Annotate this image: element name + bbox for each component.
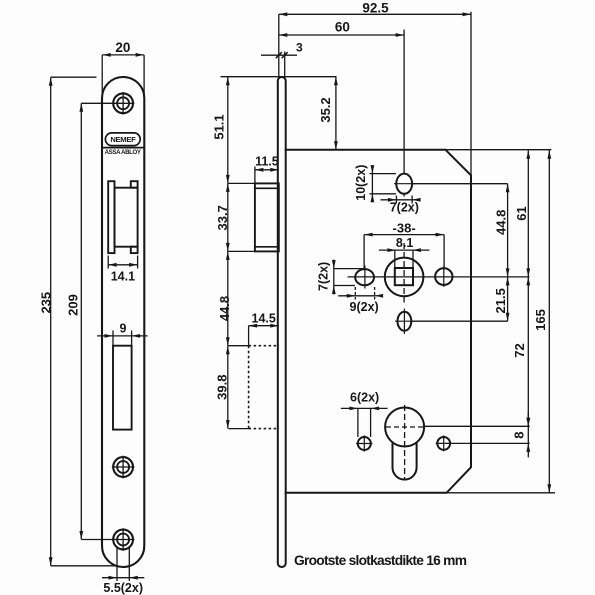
svg-text:20: 20 (115, 40, 130, 55)
svg-text:NEMEF: NEMEF (110, 135, 136, 144)
svg-text:44.8: 44.8 (217, 296, 232, 321)
svg-text:6(2x): 6(2x) (350, 391, 379, 405)
svg-text:51.1: 51.1 (212, 114, 227, 139)
svg-text:10(2x): 10(2x) (354, 165, 368, 201)
svg-text:14.1: 14.1 (111, 269, 135, 283)
svg-text:44.8: 44.8 (493, 210, 508, 235)
svg-text:8: 8 (511, 431, 526, 438)
svg-text:11.5: 11.5 (255, 155, 279, 169)
svg-text:209: 209 (65, 294, 80, 316)
svg-text:9(2x): 9(2x) (350, 300, 379, 314)
svg-text:9: 9 (120, 321, 127, 335)
svg-text:33.7: 33.7 (215, 205, 230, 230)
svg-text:3: 3 (296, 40, 303, 54)
svg-text:61: 61 (514, 206, 529, 220)
svg-text:7(2x): 7(2x) (316, 262, 330, 291)
svg-text:21.5: 21.5 (493, 288, 508, 313)
svg-text:8.1: 8.1 (396, 236, 413, 250)
svg-text:92.5: 92.5 (362, 1, 389, 16)
svg-text:-38-: -38- (393, 221, 416, 236)
svg-text:39.8: 39.8 (215, 375, 230, 400)
svg-text:5.5(2x): 5.5(2x) (103, 581, 143, 595)
svg-text:60: 60 (335, 20, 350, 35)
svg-text:14.5: 14.5 (252, 311, 276, 325)
svg-text:Grootste slotkastdikte 16 mm: Grootste slotkastdikte 16 mm (294, 553, 467, 568)
svg-text:235: 235 (38, 292, 53, 314)
svg-text:165: 165 (533, 309, 548, 331)
svg-text:72: 72 (512, 343, 527, 357)
svg-text:ASSA ABLOY: ASSA ABLOY (105, 149, 141, 156)
svg-text:7(2x): 7(2x) (390, 201, 419, 215)
svg-text:35.2: 35.2 (318, 97, 333, 122)
